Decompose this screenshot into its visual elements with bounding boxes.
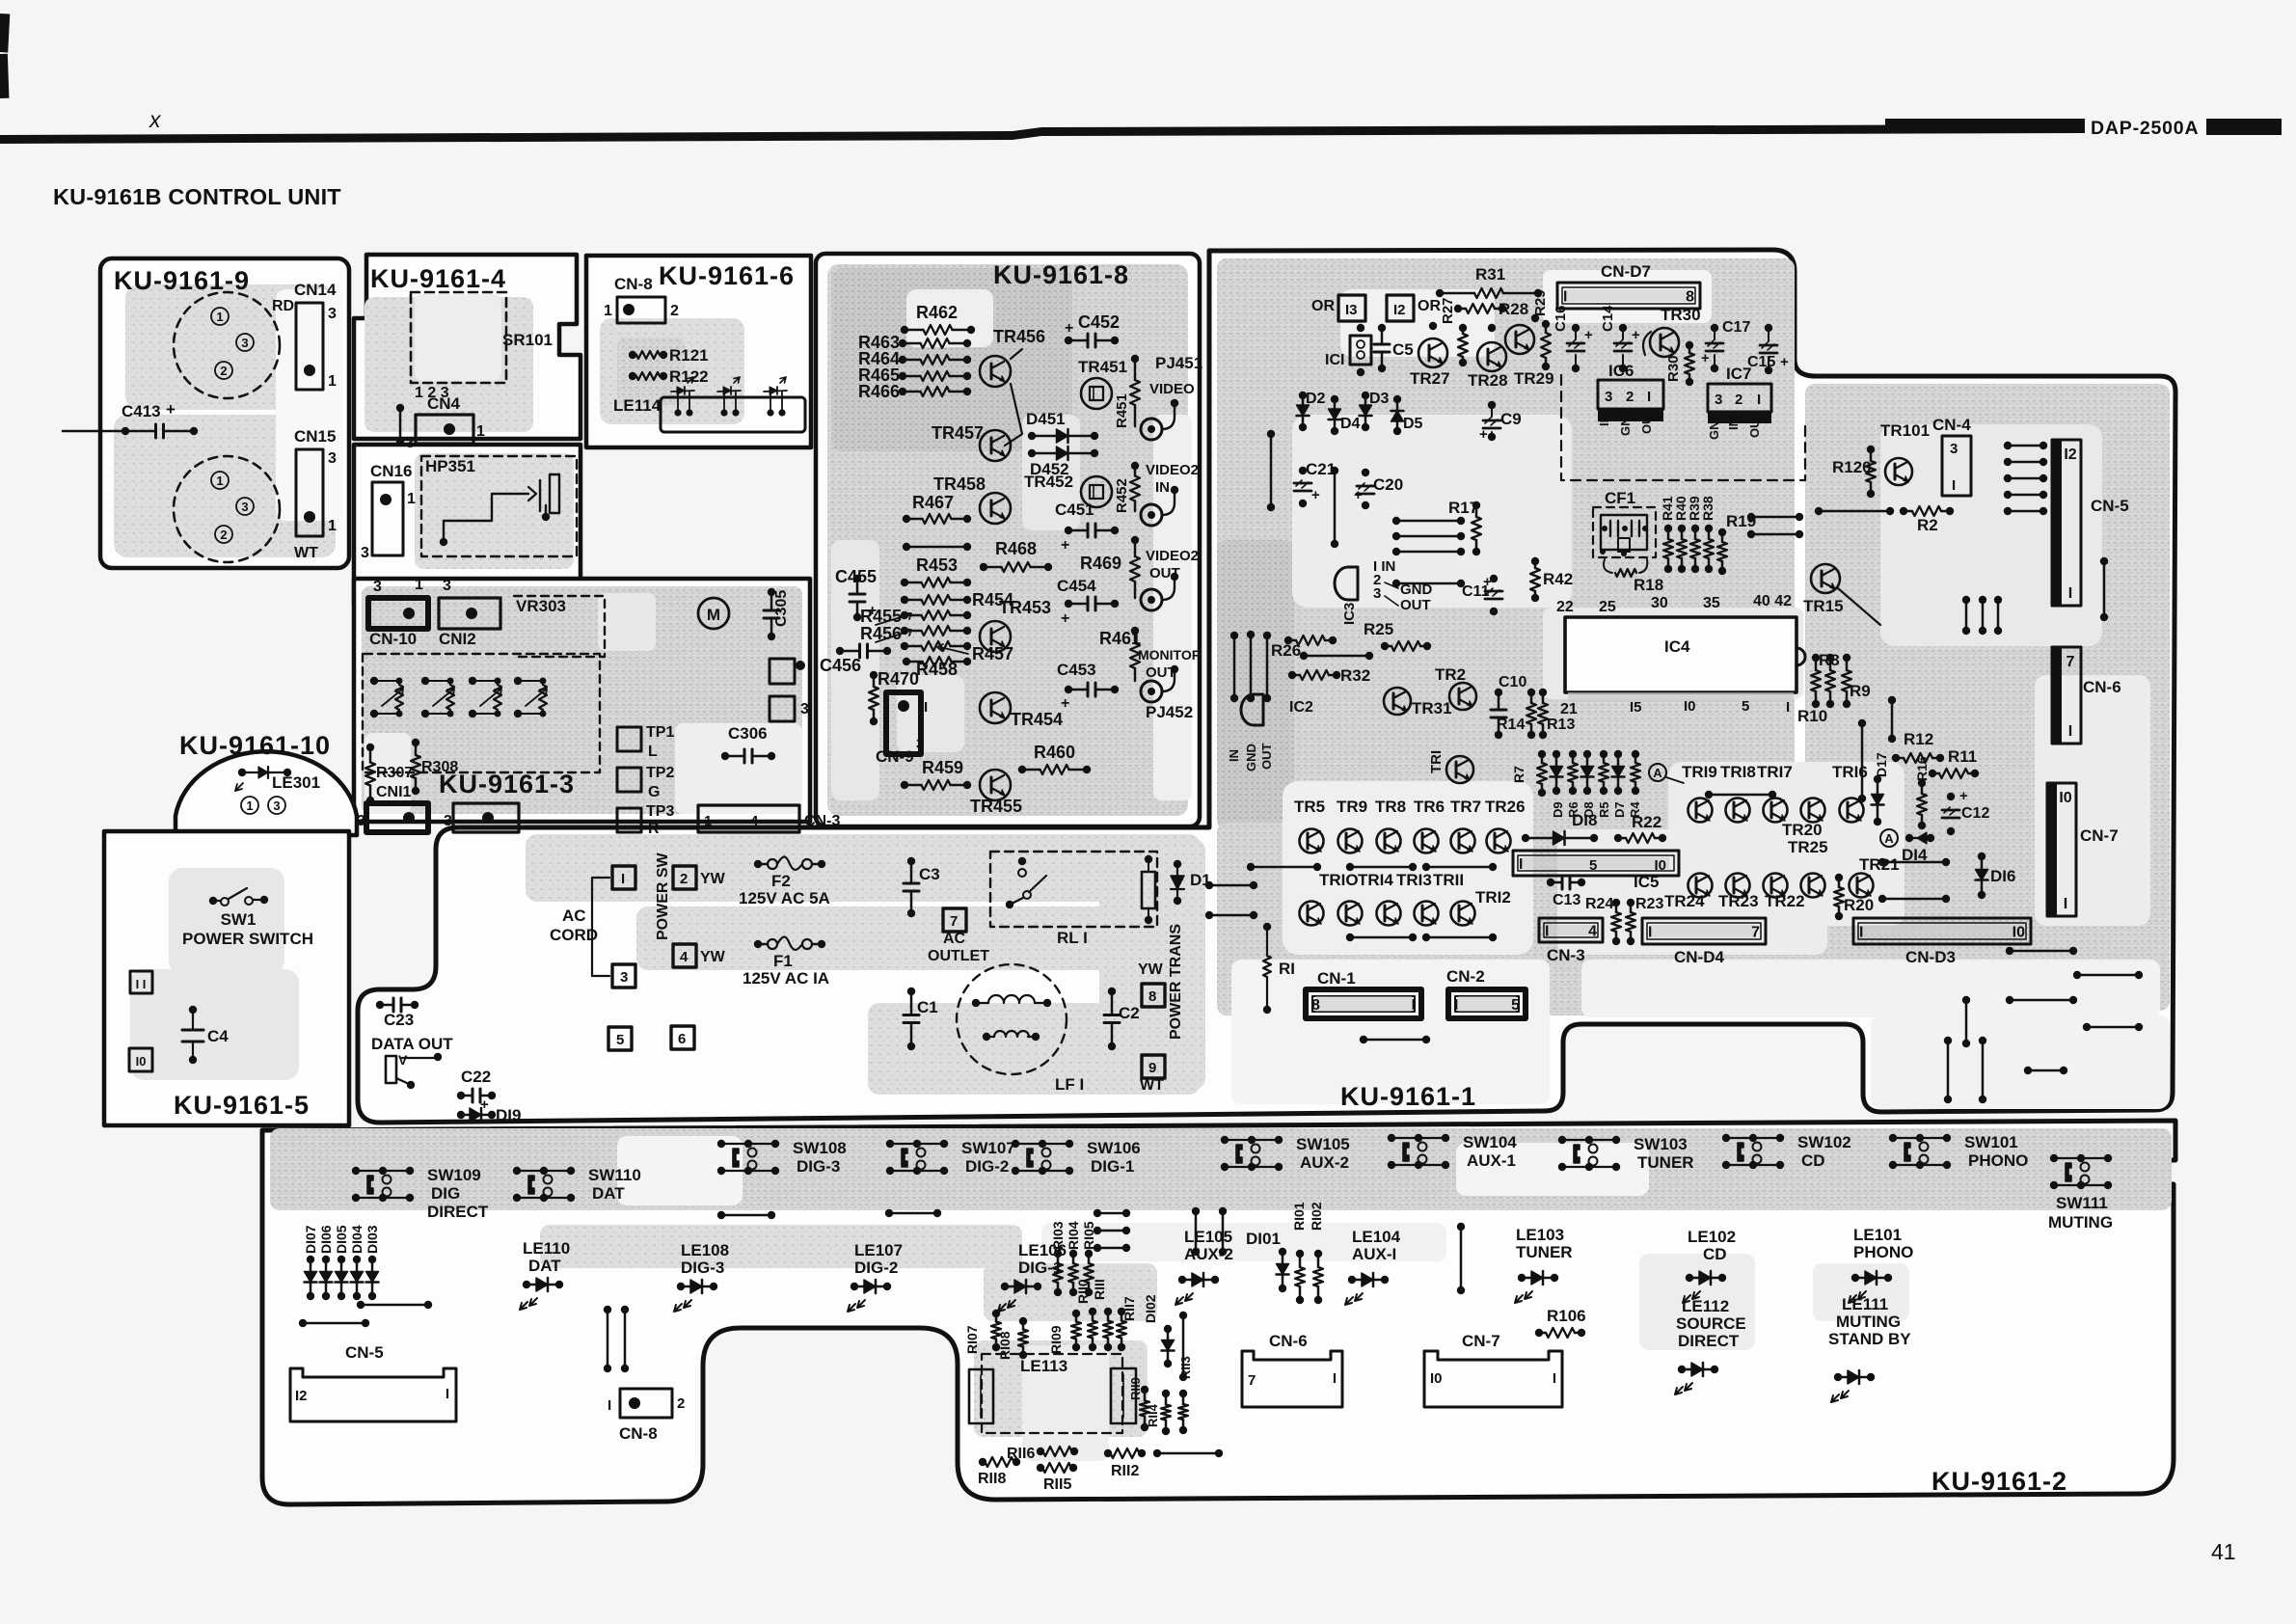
svg-text:TRII: TRII	[1433, 871, 1464, 889]
board KU-9161-3 outline	[354, 579, 810, 822]
wire	[1422, 863, 1430, 871]
svg-text:CN-D3: CN-D3	[1905, 948, 1956, 966]
svg-text:CN-1: CN-1	[1317, 969, 1356, 988]
connector KU-9161-3 aux	[453, 803, 519, 832]
svg-text:TR25: TR25	[1788, 838, 1828, 856]
svg-text:DAT: DAT	[592, 1184, 625, 1203]
switch SW105	[1225, 1139, 1279, 1141]
resistor R122	[629, 372, 636, 380]
svg-text:LE102: LE102	[1688, 1228, 1736, 1246]
svg-text:TRI8: TRI8	[1720, 763, 1756, 781]
svg-text:x: x	[149, 107, 162, 132]
svg-text:SW105: SW105	[1296, 1135, 1350, 1153]
svg-text:DI01: DI01	[1246, 1230, 1281, 1248]
fuse F2	[754, 860, 762, 868]
svg-text:RD: RD	[272, 298, 294, 314]
svg-text:3: 3	[406, 435, 415, 451]
svg-text:3: 3	[357, 813, 365, 829]
svg-text:R451: R451	[1114, 393, 1130, 428]
diode D16	[1978, 853, 1985, 860]
svg-text:C5: C5	[1392, 340, 1414, 359]
wire	[299, 1319, 307, 1327]
svg-text:R453: R453	[916, 555, 958, 575]
svg-text:8: 8	[1686, 289, 1694, 306]
capacitor C23	[376, 1001, 384, 1009]
svg-text:I0: I0	[2012, 925, 2025, 941]
pad 3	[612, 964, 635, 988]
svg-text:DI07: DI07	[303, 1225, 318, 1254]
resistor R118	[979, 1458, 986, 1466]
svg-text:KU-9161-9: KU-9161-9	[114, 266, 250, 295]
capacitor C1	[907, 988, 915, 995]
svg-text:AC: AC	[562, 907, 586, 925]
transistor TR455	[980, 770, 1011, 800]
svg-text:40 42: 40 42	[1753, 593, 1792, 609]
svg-text:RII0: RII0	[1075, 1279, 1091, 1304]
svg-text:I3: I3	[1345, 302, 1358, 318]
svg-text:R30: R30	[1665, 355, 1682, 382]
switch SW107	[890, 1143, 944, 1145]
svg-text:+: +	[1061, 610, 1069, 627]
transistor TR28	[1477, 342, 1506, 371]
svg-text:3: 3	[443, 578, 451, 594]
switch SW1	[209, 897, 217, 905]
svg-text:MONITOR: MONITOR	[1138, 647, 1202, 663]
svg-text:RII4: RII4	[1146, 1403, 1160, 1427]
pad 1	[770, 659, 795, 684]
svg-text:RI02: RI02	[1309, 1202, 1324, 1231]
svg-text:R5: R5	[1597, 801, 1611, 818]
svg-text:DI03: DI03	[365, 1225, 380, 1254]
svg-text:KU-9161-1: KU-9161-1	[1340, 1082, 1476, 1111]
svg-text:D7: D7	[1612, 801, 1627, 818]
svg-text:I: I	[1412, 997, 1416, 1014]
connector CN-9	[886, 692, 921, 754]
svg-text:I2: I2	[295, 1388, 308, 1404]
svg-text:4: 4	[680, 949, 689, 965]
svg-text:D17: D17	[1874, 752, 1889, 777]
wire	[1230, 632, 1238, 639]
svg-text:IC3: IC3	[1341, 603, 1358, 625]
board KU-9161-2 copper texture	[270, 1128, 2172, 1210]
svg-text:I: I	[1333, 1370, 1337, 1387]
svg-text:DI02: DI02	[1143, 1294, 1158, 1323]
fuse F1	[754, 940, 762, 948]
wire	[1192, 1207, 1200, 1215]
svg-text:D451: D451	[1026, 410, 1066, 428]
svg-text:I2: I2	[2064, 447, 2076, 463]
svg-text:I: I	[446, 1386, 449, 1402]
svg-text:R307: R307	[376, 765, 413, 781]
svg-text:TRI6: TRI6	[1832, 763, 1868, 781]
svg-text:POWER TRANS: POWER TRANS	[1168, 924, 1184, 1040]
svg-text:TRI: TRI	[1428, 750, 1445, 773]
pad 5	[608, 1027, 632, 1050]
svg-text:TR22: TR22	[1765, 892, 1805, 910]
wire	[1179, 1312, 1187, 1319]
svg-text:CN-6: CN-6	[2083, 678, 2121, 696]
svg-text:R122: R122	[669, 367, 709, 386]
resistor R23	[1627, 899, 1634, 907]
wire	[1392, 532, 1400, 540]
svg-text:V: V	[398, 1052, 408, 1068]
svg-text:R29: R29	[1532, 289, 1549, 316]
connector CN-D4	[1642, 918, 1766, 944]
wire	[1263, 632, 1271, 639]
test point TP3	[617, 808, 641, 832]
svg-text:C22: C22	[461, 1068, 491, 1086]
svg-text:C452: C452	[1078, 312, 1120, 332]
svg-text:VIDEO I: VIDEO I	[1149, 381, 1202, 397]
wire	[1858, 719, 1866, 727]
svg-text:RI09: RI09	[1048, 1325, 1064, 1354]
svg-text:R16: R16	[1914, 756, 1930, 781]
pad 8	[1142, 984, 1165, 1007]
svg-text:AUX-1: AUX-1	[1467, 1151, 1516, 1170]
svg-text:R38: R38	[1700, 496, 1715, 521]
wire row 2	[1346, 934, 1354, 941]
svg-text:TR31: TR31	[1412, 699, 1452, 717]
svg-text:CN-10: CN-10	[369, 630, 417, 648]
svg-text:TRI3: TRI3	[1396, 871, 1432, 889]
resistor R2	[1900, 507, 1907, 515]
board KU-9161-7 copper texture	[415, 453, 574, 569]
svg-text:R31: R31	[1475, 265, 1505, 284]
svg-text:C9: C9	[1500, 410, 1522, 428]
svg-text:I: I	[2068, 723, 2072, 740]
svg-text:LE114: LE114	[613, 396, 662, 415]
svg-text:CD: CD	[1801, 1151, 1825, 1170]
svg-text:WT: WT	[1140, 1077, 1164, 1094]
svg-text:POWER SWITCH: POWER SWITCH	[182, 930, 313, 948]
svg-text:CD: CD	[1703, 1245, 1727, 1263]
svg-text:3: 3	[361, 545, 369, 561]
wire	[1153, 1449, 1161, 1457]
svg-text:TR27: TR27	[1410, 369, 1450, 388]
svg-text:D3: D3	[1369, 391, 1390, 407]
test point TP1	[617, 727, 641, 751]
svg-text:LE107: LE107	[854, 1241, 903, 1259]
svg-text:DIRECT: DIRECT	[1678, 1332, 1740, 1350]
svg-text:KU-9161-6: KU-9161-6	[659, 261, 795, 290]
svg-text:VR303: VR303	[516, 597, 566, 615]
svg-text:R18: R18	[1634, 576, 1663, 594]
svg-text:D4: D4	[1340, 416, 1361, 432]
svg-text:LE110: LE110	[523, 1239, 570, 1258]
svg-text:STAND BY: STAND BY	[1828, 1330, 1911, 1348]
svg-text:+: +	[1354, 487, 1363, 503]
board KU-9161-3 copper texture	[362, 586, 802, 814]
svg-text:R121: R121	[669, 346, 709, 365]
switch SW109	[356, 1170, 410, 1172]
svg-text:+: +	[166, 400, 176, 419]
pad 7	[943, 908, 966, 932]
svg-text:CN-2: CN-2	[1446, 967, 1485, 986]
svg-text:SW109: SW109	[427, 1166, 481, 1184]
svg-text:+: +	[1483, 574, 1492, 590]
svg-text:KU-9161-4: KU-9161-4	[370, 264, 506, 293]
wire	[1815, 507, 1823, 515]
svg-text:3: 3	[800, 701, 809, 717]
svg-text:1: 1	[604, 303, 612, 319]
wire	[1392, 548, 1400, 555]
resistor R121	[629, 351, 636, 359]
switch SW110	[517, 1170, 571, 1172]
svg-text:TP1: TP1	[646, 724, 674, 741]
capacitor C3	[907, 857, 915, 865]
svg-text:TUNER: TUNER	[1637, 1153, 1694, 1172]
svg-text:I: I	[1648, 925, 1652, 941]
power section copper texture	[526, 834, 1201, 902]
connector CN-3 on KU-9161-3	[698, 805, 799, 832]
svg-text:I0: I0	[1430, 1370, 1443, 1387]
wire row	[1247, 863, 1255, 871]
svg-text:YW: YW	[700, 871, 726, 887]
motor M	[698, 598, 729, 629]
wire	[1331, 467, 1338, 474]
svg-text:3: 3	[241, 500, 248, 514]
IC IC4	[1565, 617, 1796, 692]
svg-text:C413: C413	[122, 402, 161, 420]
svg-text:LF I: LF I	[1055, 1075, 1084, 1094]
svg-text:A: A	[1653, 766, 1662, 780]
svg-text:7: 7	[2066, 654, 2075, 670]
svg-text:DI6: DI6	[1990, 867, 2015, 885]
svg-text:IC2: IC2	[1289, 699, 1313, 716]
diode D452	[1028, 449, 1036, 457]
svg-text:R2: R2	[1917, 516, 1938, 534]
svg-text:5: 5	[1742, 698, 1749, 715]
wire ladder left of CN-5	[2004, 442, 2012, 449]
svg-text:KU-9161-2: KU-9161-2	[1931, 1467, 2067, 1496]
svg-text:25: 25	[1599, 599, 1616, 615]
wire	[2100, 557, 2108, 565]
svg-text:I: I	[1553, 1370, 1556, 1387]
svg-text:RIII: RIII	[1092, 1279, 1107, 1300]
svg-text:I: I	[2064, 896, 2067, 912]
svg-text:22: 22	[1556, 599, 1574, 615]
svg-text:TR2: TR2	[1435, 665, 1466, 684]
svg-text:DI05: DI05	[334, 1225, 349, 1254]
svg-text:1: 1	[328, 373, 337, 390]
trimmer VR set	[370, 677, 378, 685]
wire	[2006, 947, 2013, 955]
svg-text:125V AC 5A: 125V AC 5A	[739, 889, 830, 907]
svg-text:3: 3	[273, 798, 280, 813]
svg-text:SR101: SR101	[502, 331, 553, 349]
svg-text:RL I: RL I	[1057, 929, 1088, 947]
svg-text:4: 4	[750, 813, 759, 829]
svg-text:I: I	[1647, 389, 1651, 405]
wire	[1747, 513, 1755, 521]
svg-text:I: I	[924, 699, 928, 716]
svg-text:IC7: IC7	[1726, 365, 1751, 383]
svg-text:TR456: TR456	[993, 327, 1045, 346]
connector pattern circle 1	[174, 292, 280, 398]
svg-text:CN16: CN16	[370, 462, 412, 480]
svg-text:I5: I5	[1630, 699, 1642, 716]
wire	[2006, 996, 2013, 1004]
svg-text:DI8: DI8	[1572, 811, 1597, 829]
svg-text:I: I	[2068, 585, 2072, 602]
svg-text:C306: C306	[728, 724, 768, 743]
svg-text:R469: R469	[1080, 554, 1121, 573]
svg-text:SW111: SW111	[2056, 1194, 2108, 1212]
svg-text:7: 7	[1751, 925, 1760, 941]
svg-text:TR458: TR458	[933, 474, 986, 494]
svg-text:KU-9161-3: KU-9161-3	[439, 770, 575, 798]
svg-text:TR101: TR101	[1880, 421, 1930, 440]
trimmer block outline	[363, 654, 600, 772]
svg-text:D9: D9	[1551, 801, 1565, 818]
svg-text:TR8: TR8	[1375, 798, 1406, 816]
svg-text:2: 2	[1735, 392, 1742, 408]
wire	[396, 404, 404, 412]
svg-text:RI: RI	[1279, 960, 1295, 978]
svg-text:2: 2	[220, 364, 227, 378]
svg-text:RI04: RI04	[1066, 1221, 1081, 1250]
wire	[604, 1306, 611, 1313]
svg-text:TR7: TR7	[1450, 798, 1481, 816]
switch SW101	[1893, 1137, 1947, 1139]
svg-text:TP2: TP2	[646, 765, 674, 781]
board KU-9161-6 copper texture	[600, 318, 744, 424]
svg-text:I I: I I	[136, 977, 147, 991]
resistor R1	[1263, 923, 1271, 931]
svg-text:3: 3	[1605, 389, 1612, 405]
svg-text:OUT: OUT	[1747, 412, 1762, 439]
svg-text:KU-9161-5: KU-9161-5	[174, 1091, 310, 1120]
headphone jack wiring	[440, 538, 447, 546]
IC IC5 array	[1513, 851, 1679, 876]
svg-text:DAP-2500A: DAP-2500A	[2091, 118, 2199, 139]
svg-text:3: 3	[916, 736, 924, 752]
svg-text:LE103: LE103	[1516, 1226, 1564, 1244]
connector CN-3	[1539, 918, 1603, 942]
connector CN-7 vertical	[2047, 783, 2076, 916]
svg-text:125V AC IA: 125V AC IA	[743, 969, 829, 988]
connector CN-10	[368, 598, 428, 629]
svg-text:+: +	[1959, 788, 1968, 804]
resistor R115	[1037, 1464, 1044, 1472]
svg-text:RII3: RII3	[1178, 1356, 1193, 1379]
svg-text:RI05: RI05	[1081, 1221, 1096, 1250]
top rule line	[0, 124, 2085, 144]
svg-text:2: 2	[677, 1395, 685, 1412]
svg-text:F2: F2	[771, 872, 791, 890]
line filter LF1	[957, 964, 1067, 1074]
svg-text:DIG-3: DIG-3	[681, 1259, 724, 1277]
wire	[1360, 1036, 1367, 1043]
svg-text:G: G	[648, 784, 660, 800]
wire group below SW106	[1094, 1209, 1101, 1217]
data out plug	[386, 1056, 396, 1083]
switch SW104	[1391, 1137, 1445, 1139]
pad 9	[1142, 1055, 1165, 1078]
IC4 pin row	[1568, 692, 1794, 702]
wire	[2073, 971, 2081, 979]
svg-text:TR455: TR455	[970, 797, 1022, 816]
svg-text:3: 3	[328, 306, 337, 322]
svg-text:M: M	[707, 606, 720, 624]
resistor R307	[366, 744, 374, 751]
wire	[2024, 1067, 2032, 1074]
resistor R457	[901, 642, 908, 650]
svg-text:DIG-2: DIG-2	[854, 1259, 898, 1277]
connector CN-8 bottom board	[620, 1389, 672, 1418]
svg-text:3: 3	[1715, 392, 1722, 408]
svg-text:TRI9: TRI9	[1682, 763, 1717, 781]
svg-text:PHONO: PHONO	[1968, 1151, 2028, 1170]
resistor R28	[1454, 305, 1462, 312]
svg-text:IN: IN	[1597, 414, 1611, 426]
svg-text:YW: YW	[700, 949, 726, 965]
svg-text:AUX-2: AUX-2	[1300, 1153, 1349, 1172]
svg-text:3: 3	[620, 969, 628, 986]
svg-text:OUT: OUT	[1639, 408, 1654, 435]
connector CN-5 vertical	[2052, 440, 2081, 606]
svg-text:RI01: RI01	[1291, 1202, 1307, 1231]
wire	[1219, 1207, 1227, 1215]
svg-text:DIG-2: DIG-2	[965, 1157, 1009, 1176]
svg-text:C2: C2	[1119, 1004, 1140, 1022]
svg-text:TRI7: TRI7	[1757, 763, 1793, 781]
capacitor C4	[189, 1006, 197, 1014]
svg-text:TRI2: TRI2	[1475, 888, 1511, 907]
svg-text:CN-8: CN-8	[619, 1424, 658, 1443]
svg-text:AUX-I: AUX-I	[1352, 1245, 1396, 1263]
pad 12 OR	[1387, 295, 1414, 321]
svg-text:AUX-2: AUX-2	[1184, 1245, 1233, 1263]
capacitor C305	[768, 588, 775, 596]
pad 10	[129, 1048, 152, 1071]
svg-text:RI07: RI07	[964, 1325, 980, 1354]
svg-text:RII5: RII5	[1043, 1476, 1071, 1493]
relay RL1 coil	[1142, 872, 1155, 908]
transistor TR31	[1384, 688, 1411, 715]
svg-text:8: 8	[1148, 988, 1156, 1005]
svg-text:I0: I0	[1684, 698, 1696, 715]
svg-text:CN4: CN4	[427, 394, 461, 413]
svg-text:R13: R13	[1547, 717, 1575, 733]
svg-text:I0: I0	[1654, 857, 1666, 874]
AC CORD bracket	[592, 878, 609, 976]
svg-text:MUTING: MUTING	[2048, 1213, 2113, 1232]
svg-text:C3: C3	[919, 865, 940, 883]
svg-text:R20: R20	[1844, 896, 1874, 914]
svg-text:CF1: CF1	[1605, 489, 1635, 507]
jack PJ452 video2in symbol	[1141, 504, 1162, 526]
svg-text:DATA OUT: DATA OUT	[371, 1035, 453, 1053]
svg-text:OR: OR	[1311, 298, 1335, 314]
wire	[1705, 791, 1713, 798]
svg-text:CORD: CORD	[550, 926, 598, 944]
board KU-9161-4 outline	[354, 255, 581, 439]
svg-text:2: 2	[220, 528, 227, 542]
svg-text:CN15: CN15	[294, 427, 336, 446]
svg-text:41: 41	[2211, 1539, 2236, 1564]
resistor R454	[901, 596, 908, 604]
svg-text:CN-5: CN-5	[2091, 497, 2129, 515]
svg-text:C14: C14	[1600, 305, 1616, 332]
svg-text:C12: C12	[1961, 805, 1989, 822]
svg-text:TR15: TR15	[1803, 597, 1844, 615]
board KU-9161-8 outline	[816, 254, 1200, 826]
svg-text:R468: R468	[995, 539, 1037, 558]
svg-text:R467: R467	[912, 493, 954, 512]
svg-text:7: 7	[1248, 1372, 1256, 1389]
svg-text:4: 4	[1588, 924, 1597, 940]
